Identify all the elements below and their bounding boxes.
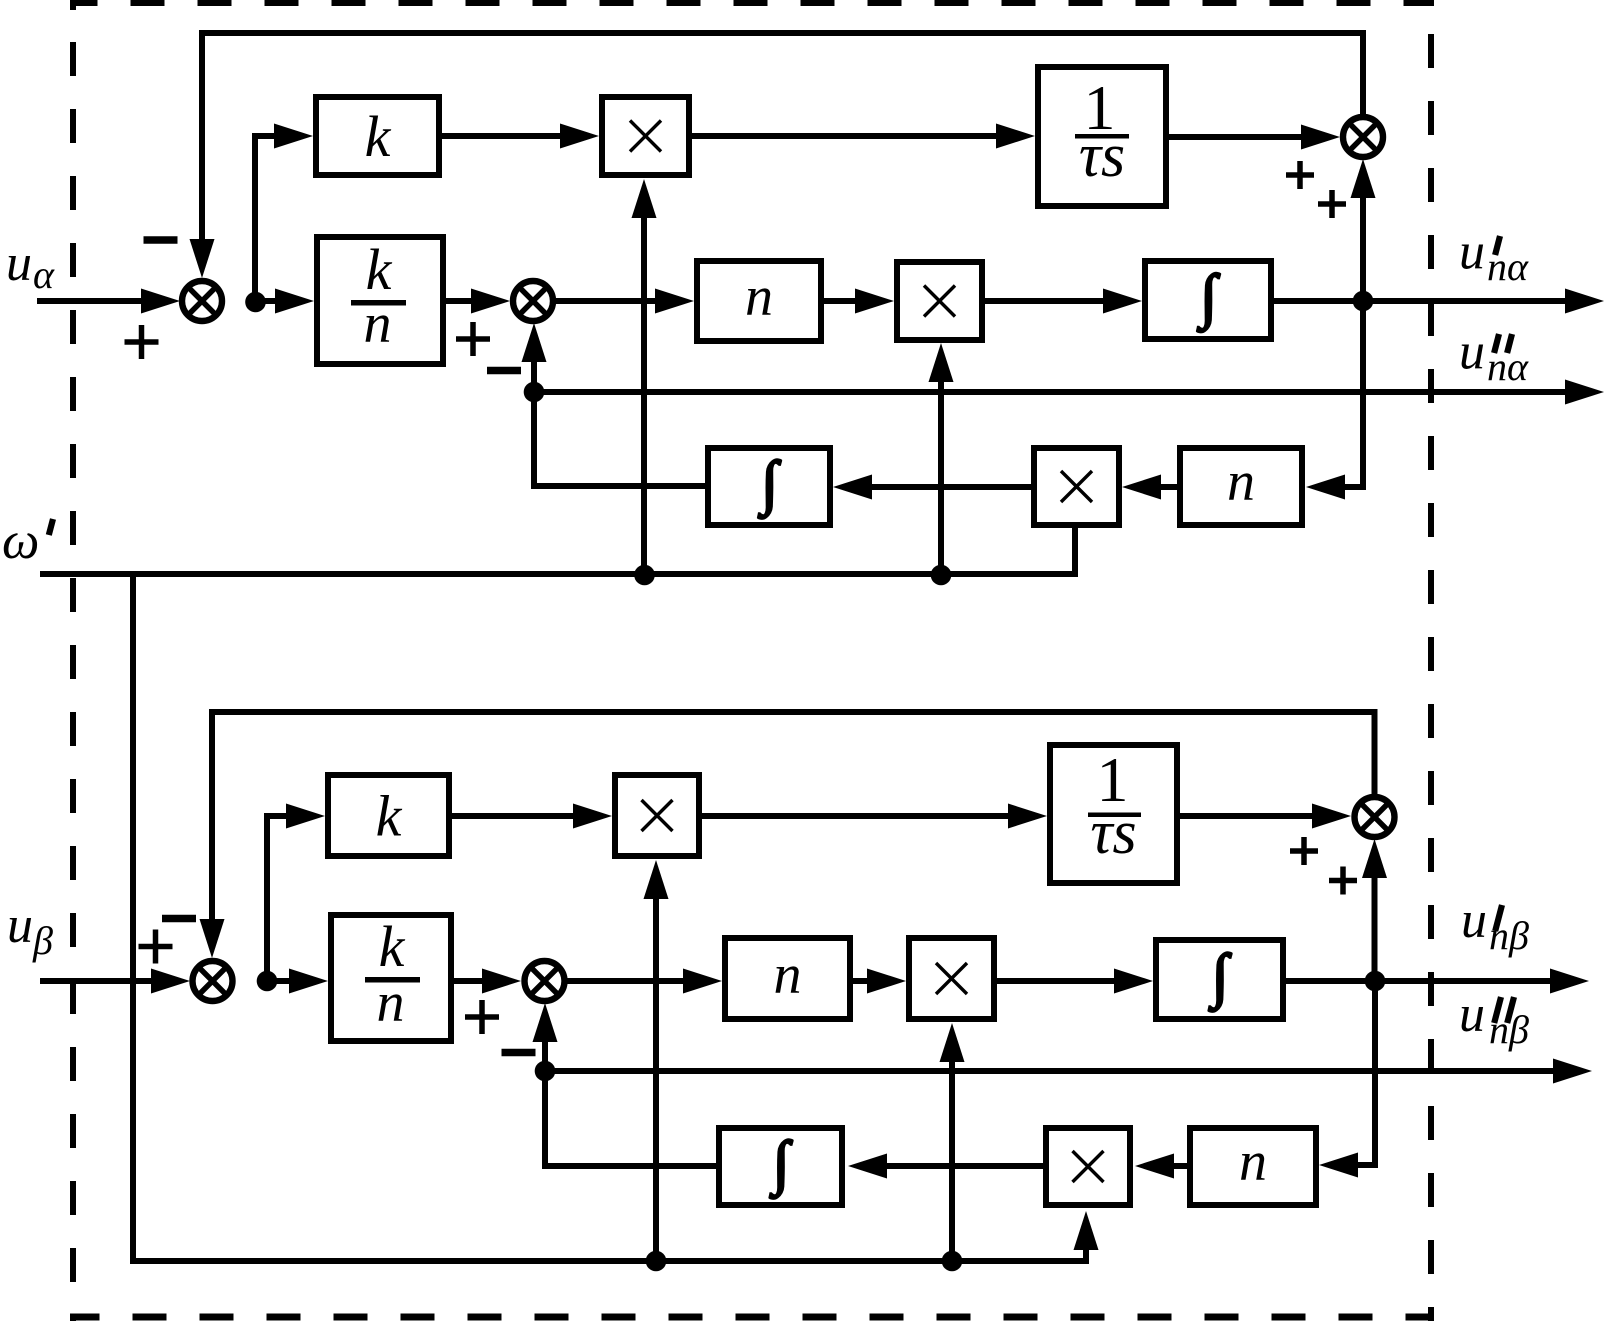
wire lower integrator output to S2a minus input — [522, 323, 706, 486]
wire k beta to multiplier X1b — [452, 804, 612, 829]
wire lower integrator beta output to S2b minus input — [533, 1003, 717, 1166]
summing junction S2b — [525, 961, 565, 1001]
label u''nb output — [1459, 986, 1529, 1052]
wire node B2 up to S3b — [1362, 839, 1387, 981]
wire output u''nb — [545, 1059, 1592, 1084]
gain block k/n (alpha) — [317, 237, 443, 364]
multiplier block X2b — [909, 938, 994, 1019]
dashed boundary bottom — [70, 1314, 1434, 1321]
multiplier block X2a — [897, 262, 982, 340]
wire multiplier X3b to lower integrator beta — [848, 1154, 1043, 1179]
svg-text:n: n — [377, 972, 405, 1034]
svg-text:k: k — [379, 914, 406, 979]
svg-text:nβ: nβ — [1489, 913, 1529, 958]
gain block k/n (beta) — [331, 914, 451, 1041]
minus sign at summing junction S1b — [162, 915, 196, 923]
integrator block (alpha lower) — [708, 448, 830, 525]
integrator block (beta lower) — [719, 1128, 842, 1205]
plus sign at summing junction S1b — [139, 930, 173, 964]
svg-text:u: u — [7, 897, 33, 954]
svg-text:k: k — [376, 784, 403, 849]
svg-text:α: α — [33, 252, 55, 297]
wire node A1 to gain k block — [255, 124, 313, 302]
node W3 on beta omega line — [646, 1251, 667, 1272]
wire output u'nb — [1375, 969, 1589, 994]
plus sign at summing junction S1a — [125, 325, 159, 359]
svg-text:n: n — [1227, 451, 1255, 513]
block n (alpha mid) — [697, 261, 821, 341]
svg-text:u: u — [1461, 892, 1487, 949]
svg-text:n: n — [745, 266, 773, 328]
summing junction S1b — [193, 961, 233, 1001]
wire beta omega up to X2b — [940, 1023, 965, 1261]
plus sign at S2b — [465, 1000, 499, 1034]
multiplier block X1a — [602, 97, 689, 175]
plus sign below at S3a — [1318, 190, 1346, 218]
wire k/n beta to summing junction S2b — [454, 969, 521, 994]
summing junction S1a — [182, 281, 222, 321]
wire S2b to block n (beta mid) — [567, 969, 722, 994]
wire node A2 to block k/n (beta) — [267, 969, 328, 994]
gain block k (alpha) — [316, 97, 439, 175]
wire feedback from S3a output to S1a — [190, 33, 1364, 278]
label u_beta input — [7, 897, 53, 963]
node W4 on beta omega line — [942, 1251, 963, 1272]
plus sign at S2a — [456, 322, 490, 356]
node B2 u'nb — [1365, 971, 1386, 992]
label u_alpha input — [6, 235, 55, 297]
wire n beta to multiplier X2b — [853, 969, 906, 994]
node B1 u'na — [1353, 291, 1374, 312]
wire omega up to X1a — [632, 179, 657, 574]
svg-text:u: u — [1459, 986, 1485, 1043]
wire 1/tau-s beta to summing junction S3b — [1180, 804, 1351, 829]
plus sign left at S3b — [1290, 837, 1318, 865]
wire omega-prime main line — [40, 528, 1075, 574]
wire feedback from S3b output to S1b — [200, 712, 1375, 958]
wire u_beta input — [40, 969, 190, 994]
summing junction S2a — [513, 281, 553, 321]
minus sign at S2b — [502, 1049, 536, 1057]
wire output u''na — [534, 380, 1604, 405]
wire block n lower to X3a — [1122, 475, 1177, 500]
wire output u'na — [1363, 289, 1604, 314]
wire k to multiplier X1a — [442, 124, 599, 149]
summing junction S3b — [1355, 797, 1395, 837]
svg-text:τs: τs — [1079, 122, 1125, 190]
svg-text:n: n — [364, 293, 392, 355]
wire X1b to integrator 1/tau-s beta — [702, 804, 1047, 829]
block 1/tau-s (alpha) — [1038, 67, 1166, 206]
node C1 u''na — [524, 382, 545, 403]
wire X1a to integrator 1/tau-s — [692, 124, 1035, 149]
svg-text:u: u — [1459, 224, 1485, 281]
label u'na output — [1459, 224, 1529, 290]
svg-text:nα: nα — [1487, 244, 1529, 289]
minus sign at summing junction S1a — [144, 236, 178, 244]
wire node A2 to gain k block beta — [267, 804, 325, 982]
block n (beta lower) — [1190, 1128, 1316, 1205]
wire u_alpha input — [37, 289, 180, 314]
svg-text:nβ: nβ — [1489, 1007, 1529, 1052]
wire X2b to integrator (beta mid) — [997, 969, 1153, 994]
wire block n lower beta to X3b — [1135, 1154, 1187, 1179]
wire omega up to X2a — [929, 343, 954, 574]
wire k/n to summing junction S2a — [446, 289, 510, 314]
dashed boundary top — [70, 0, 1434, 6]
label omega-prime input — [2, 512, 53, 570]
block n (beta mid) — [725, 938, 850, 1019]
wire S2a to block n (alpha mid) — [556, 289, 694, 314]
node W2 on omega line — [931, 565, 952, 586]
svg-text:u: u — [6, 235, 32, 292]
multiplier block X1b — [615, 775, 699, 856]
multiplier block X3b — [1046, 1128, 1130, 1205]
svg-text:τs: τs — [1090, 799, 1136, 867]
integrator block (beta mid) — [1156, 940, 1283, 1019]
dashed boundary right — [1428, 0, 1434, 1321]
block 1/tau-s (beta) — [1050, 744, 1177, 883]
plus sign left at S3a — [1286, 161, 1314, 189]
svg-text:ω: ω — [2, 512, 39, 570]
wire 1/tau-s to summing junction S3a — [1169, 125, 1340, 150]
dashed boundary left — [70, 0, 76, 1321]
block n (alpha lower) — [1180, 448, 1302, 525]
wire node B1 down to n lower — [1306, 301, 1363, 500]
svg-text:n: n — [1239, 1131, 1267, 1193]
svg-text:n: n — [774, 944, 802, 1006]
wire integrator beta to node B2 — [1286, 978, 1375, 984]
label u'nb output — [1461, 892, 1529, 958]
node W1 on omega line — [634, 565, 655, 586]
multiplier block X3a — [1034, 448, 1119, 525]
svg-text:k: k — [365, 104, 392, 169]
wire n to multiplier X2a — [824, 289, 894, 314]
plus sign below at S3b — [1329, 867, 1357, 895]
node A1 error branch — [245, 292, 266, 313]
wire beta omega up to X1b — [644, 860, 669, 1261]
svg-text:u: u — [1459, 324, 1485, 381]
node A2 error branch — [257, 971, 278, 992]
wire integrator to node B1 — [1274, 298, 1363, 304]
label u''na output — [1459, 324, 1529, 390]
svg-text:β: β — [32, 918, 53, 963]
summing junction S3a — [1343, 117, 1383, 157]
minus sign at S2a — [487, 367, 521, 375]
svg-text:nα: nα — [1487, 344, 1529, 389]
node C2 u''nb — [535, 1061, 556, 1082]
wire node B2 down to n lower beta — [1319, 981, 1375, 1178]
wire node B1 up to S3a — [1351, 159, 1376, 301]
wire X2a to integrator (alpha mid) — [985, 289, 1142, 314]
integrator block (alpha mid) — [1145, 261, 1271, 339]
wire multiplier X3a to lower integrator — [833, 475, 1031, 500]
wire omega-prime branch down to beta section — [133, 574, 1099, 1261]
wire node A1 to block k/n (alpha) — [255, 289, 314, 314]
gain block k (beta) — [328, 775, 449, 856]
